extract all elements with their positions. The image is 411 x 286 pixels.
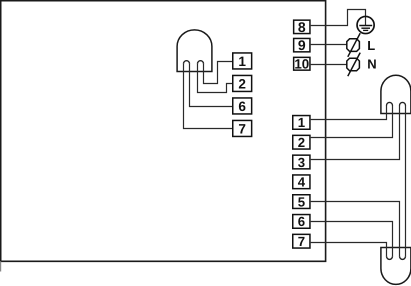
terminal box 10 xyxy=(294,57,310,72)
svg-text:5: 5 xyxy=(298,194,305,209)
terminal box 9 xyxy=(294,37,310,53)
terminal box 7 (left column) xyxy=(233,120,252,136)
terminal box 6 (right column) xyxy=(293,214,310,229)
svg-text:10: 10 xyxy=(294,57,309,72)
terminal box 1 (left column) xyxy=(233,53,252,69)
wire box 8 to earth xyxy=(311,10,366,26)
terminal box 2 (left column) xyxy=(233,75,252,91)
svg-text:2: 2 xyxy=(298,135,305,150)
wire EL1 pin to box 1 xyxy=(204,62,233,84)
wire EL1 pin to box 7 xyxy=(184,64,233,129)
wire EL1 pin to box 2 xyxy=(198,64,233,93)
filament pin P2 of EL3 xyxy=(400,256,406,259)
wire EL1 pin to box 6 xyxy=(190,64,233,107)
svg-text:L: L xyxy=(367,38,375,53)
earth symbol xyxy=(357,16,374,33)
svg-text:1: 1 xyxy=(238,54,246,69)
filament pin P2 of EL1 xyxy=(198,61,204,64)
wire EL2 pin to EL3 pin xyxy=(405,106,407,257)
svg-text:7: 7 xyxy=(298,234,305,249)
lamp EL2 (fluorescent tube top end) xyxy=(381,75,411,113)
wire box 6 to EL3 pin xyxy=(311,222,393,257)
wire box 10 to terminal N xyxy=(311,64,347,66)
terminal N (screw terminal) xyxy=(347,53,360,77)
terminal L (screw terminal) xyxy=(347,33,360,57)
terminal box 3 (right column) xyxy=(293,155,310,170)
terminal box 5 (right column) xyxy=(293,194,310,209)
wire box 2 to EL2 pin xyxy=(311,106,393,138)
wire box 1 to EL2 pin xyxy=(311,106,387,120)
wire box 9 to terminal L xyxy=(311,44,347,46)
wire box 7 to EL3 pin xyxy=(311,243,387,257)
svg-text:N: N xyxy=(367,57,376,72)
terminal box 6 (left column) xyxy=(233,98,252,114)
terminal box 7 (right column) xyxy=(293,234,310,249)
svg-text:7: 7 xyxy=(238,122,246,137)
svg-text:4: 4 xyxy=(298,175,306,190)
svg-text:6: 6 xyxy=(238,99,246,114)
svg-text:9: 9 xyxy=(298,37,306,53)
filament pin P1 of EL1 xyxy=(184,61,190,64)
wire box 5 to EL3 pin xyxy=(311,202,400,257)
lamp EL1 (compact fluorescent, left) xyxy=(177,30,212,72)
wire (left border stub artifact) xyxy=(0,261,2,271)
lamp EL3 (fluorescent tube bottom end) xyxy=(381,248,411,285)
svg-text:6: 6 xyxy=(298,214,305,229)
filament pin P2 of EL2 xyxy=(400,102,406,105)
svg-text:2: 2 xyxy=(238,77,246,92)
svg-text:1: 1 xyxy=(298,115,305,130)
wire box 3 to EL2 pin xyxy=(311,106,400,160)
terminal box 2 (right column) xyxy=(293,135,310,150)
svg-text:3: 3 xyxy=(298,155,305,170)
filament pin P1 of EL3 xyxy=(387,256,393,259)
device outline xyxy=(1,1,326,262)
terminal box 4 (right column) xyxy=(293,175,310,190)
svg-text:8: 8 xyxy=(298,19,306,35)
filament pin P1 of EL2 xyxy=(387,102,393,105)
terminal box 8 xyxy=(294,19,310,35)
terminal box 1 (right column) xyxy=(293,115,310,130)
